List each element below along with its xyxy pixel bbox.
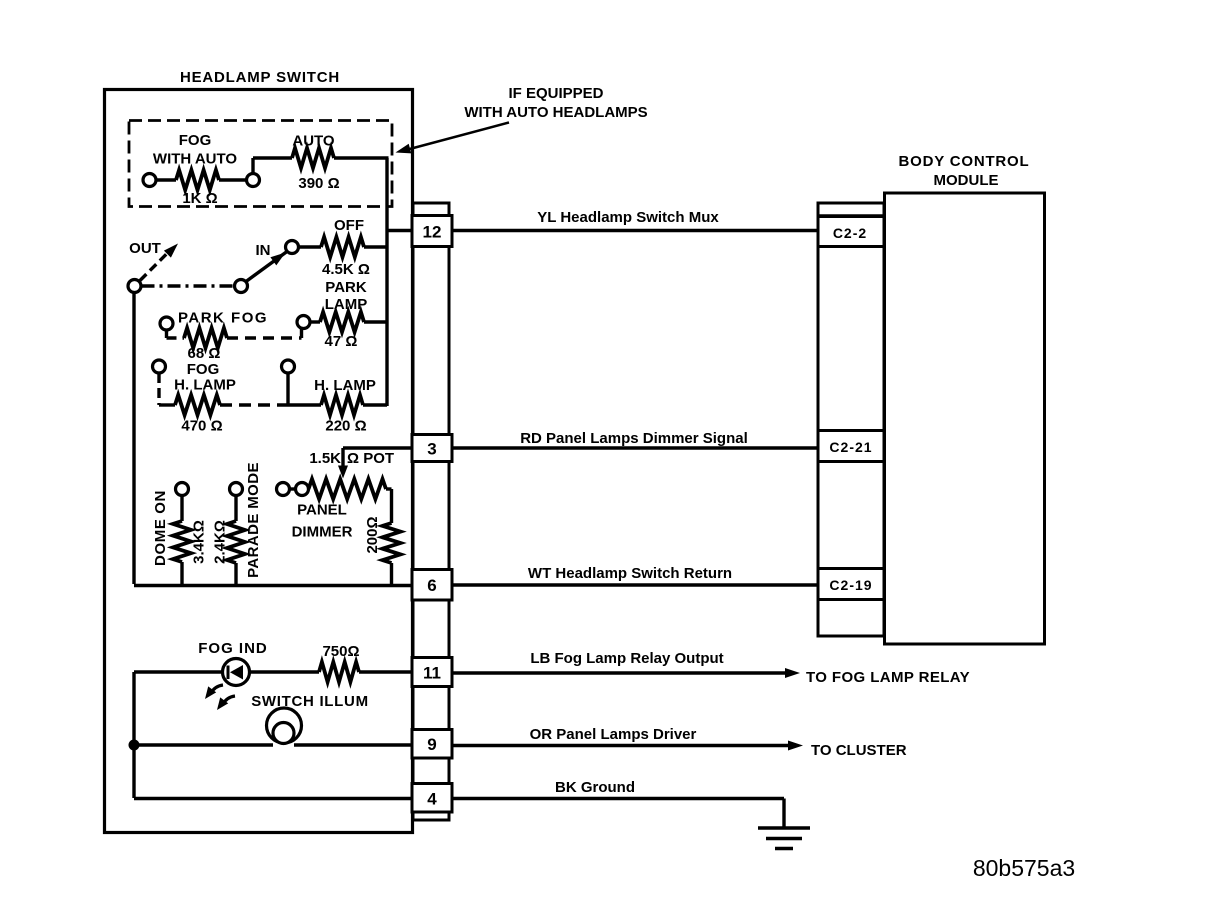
wire OFF resistor left lead (298, 245, 321, 248)
svg-text:DIMMER: DIMMER (292, 524, 353, 541)
wire AUTO to bus (334, 156, 389, 159)
label HEADLAMP SWITCH (180, 69, 340, 86)
figure id 80b575a3 (973, 855, 1075, 881)
lamp SWITCH ILLUM (267, 708, 302, 744)
terminal FOG WITH AUTO right (247, 174, 260, 187)
value 3.4K (191, 520, 208, 564)
label WITH AUTO HEADLAMPS (464, 104, 647, 121)
label RD wire (520, 430, 748, 447)
svg-text:OUT: OUT (129, 240, 161, 257)
label OR wire (530, 726, 697, 743)
wire 1K to terminal (219, 178, 247, 181)
svg-text:RD Panel Lamps Dimmer Signal: RD Panel Lamps Dimmer Signal (520, 430, 748, 447)
pin C2-19 (818, 569, 884, 600)
resistor FOG H LAMP 470 (175, 395, 220, 415)
value 68 (188, 345, 221, 362)
terminal DOME ON (176, 483, 189, 496)
wire park lamp to bus (364, 320, 387, 323)
pin 3 (412, 435, 452, 462)
pin 6 (412, 570, 452, 601)
label PANEL (297, 502, 347, 519)
svg-text:C2-2: C2-2 (833, 225, 867, 241)
svg-text:Ω POT: Ω POT (347, 450, 394, 467)
label WITH AUTO (153, 151, 237, 168)
label WT wire (528, 565, 732, 582)
svg-text:FOG: FOG (187, 361, 220, 378)
terminal FOG WITH AUTO left (143, 174, 156, 187)
value 4.5K (322, 261, 370, 278)
wire left bus (switch common) (132, 290, 135, 584)
wire riser to AUTO resistor (253, 158, 292, 176)
svg-text:H. LAMP: H. LAMP (174, 377, 236, 394)
wire dome on to return (180, 562, 183, 586)
svg-text:2.4KΩ: 2.4KΩ (212, 520, 229, 564)
resistor PANEL DIMMER 1.5K POT (309, 479, 387, 499)
svg-text:HEADLAMP SWITCH: HEADLAMP SWITCH (180, 69, 340, 86)
arrowhead to cluster (788, 741, 803, 751)
connector strip BCM top divider (818, 214, 884, 217)
LED light arrow 1 (205, 685, 223, 699)
label FOG2 (187, 361, 220, 378)
label DIMMER (292, 524, 353, 541)
label FOG IND (198, 640, 268, 657)
wire dome on drop (180, 496, 183, 522)
wire 1K resistor left lead (156, 178, 176, 181)
headlamp switch enclosure (105, 90, 413, 833)
wire WT headlamp switch return right (452, 583, 818, 586)
svg-text:BODY CONTROL: BODY CONTROL (899, 153, 1030, 170)
connector strip headlamp switch (413, 203, 449, 820)
wire LB fog lamp relay output (452, 671, 787, 674)
wire pot terminal link (290, 487, 296, 490)
pin C2-21 (818, 431, 884, 462)
wire OR panel lamps driver (452, 744, 790, 747)
svg-text:1K Ω: 1K Ω (182, 190, 217, 207)
svg-text:9: 9 (427, 735, 436, 754)
resistor PARK FOG 68 (184, 328, 227, 348)
wire switch illum right (294, 743, 413, 746)
arrow if-equipped callout (396, 123, 510, 154)
svg-text:12: 12 (423, 223, 442, 242)
svg-text:220 Ω: 220 Ω (325, 418, 366, 435)
svg-text:FOG: FOG (179, 132, 212, 149)
wire h lamp dashed link (220, 403, 288, 406)
resistor 750 ohm (319, 662, 359, 682)
value 470 (181, 418, 222, 435)
label MODULE (934, 172, 999, 189)
label FOG (179, 132, 212, 149)
svg-text:PARK FOG: PARK FOG (178, 310, 268, 327)
value 220 (325, 418, 366, 435)
svg-text:80b575a3: 80b575a3 (973, 855, 1075, 881)
wire pin 3 to wiper (343, 446, 413, 449)
terminal pot left (296, 483, 309, 496)
svg-text:H. LAMP: H. LAMP (314, 377, 376, 394)
svg-text:PARK: PARK (325, 279, 367, 296)
svg-text:TO FOG LAMP RELAY: TO FOG LAMP RELAY (806, 669, 970, 686)
wire YL headlamp switch mux (452, 229, 818, 232)
svg-text:4.5K Ω: 4.5K Ω (322, 261, 370, 278)
value 200 (364, 516, 381, 553)
terminal PARK FOG (160, 317, 173, 330)
svg-text:750Ω: 750Ω (322, 643, 359, 660)
value 750 (322, 643, 359, 660)
svg-text:6: 6 (427, 576, 436, 595)
body control module box (885, 193, 1045, 644)
label OFF (334, 217, 364, 234)
label LB wire (530, 650, 723, 667)
svg-text:3: 3 (427, 440, 436, 459)
svg-text:FOG IND: FOG IND (198, 640, 268, 657)
svg-text:11: 11 (423, 664, 441, 683)
terminal PARK LAMP (297, 316, 310, 329)
label OUT (129, 240, 161, 257)
label AUTO (292, 133, 335, 150)
wire RD panel lamps dimmer signal (452, 446, 818, 449)
svg-text:68 Ω: 68 Ω (188, 345, 221, 362)
svg-text:SWITCH ILLUM: SWITCH ILLUM (251, 693, 369, 710)
label TO FOG LAMP RELAY (806, 669, 970, 686)
wire pot wiper (341, 448, 344, 467)
svg-text:3.4KΩ: 3.4KΩ (191, 520, 208, 564)
pin 9 (412, 730, 452, 759)
svg-text:TO CLUSTER: TO CLUSTER (811, 742, 907, 759)
svg-text:AUTO: AUTO (292, 133, 335, 150)
pin 4 (412, 784, 452, 813)
wire fog h lamp dashed drop (157, 373, 160, 405)
connector strip top divider (413, 214, 449, 217)
wire h lamp terminal drop (286, 373, 289, 405)
wire OFF to bus (364, 245, 387, 248)
wire BK ground (pin 4 row) (134, 797, 413, 800)
resistor OFF 4.5K (321, 237, 364, 257)
LED indicator FOG IND (223, 659, 250, 686)
resistor PARK LAMP 47 (320, 312, 364, 332)
pin 12 (412, 216, 452, 247)
svg-text:C2-21: C2-21 (829, 439, 872, 455)
label TO CLUSTER (811, 742, 907, 759)
resistor H LAMP 220 (321, 395, 363, 415)
connector strip BCM C2 (818, 203, 884, 636)
resistor DOME ON 3.4K (173, 521, 191, 562)
resistor AUTO 390 (292, 148, 334, 168)
wire parade mode drop (234, 496, 237, 522)
value 390 (298, 175, 339, 192)
wire BK ground right (452, 799, 784, 829)
label DOME ON (152, 490, 169, 566)
label IF EQUIPPED (508, 85, 603, 102)
svg-text:OR Panel Lamps Driver: OR Panel Lamps Driver (530, 726, 697, 743)
wire fog ind left lead (134, 670, 223, 673)
label H LAMP left (174, 377, 236, 394)
label PARADE MODE (245, 462, 262, 578)
value 1.5K POT (309, 450, 394, 467)
wire right bus (mux ladder) (385, 158, 388, 406)
svg-text:OFF: OFF (334, 217, 364, 234)
label SWITCH ILLUM (251, 693, 369, 710)
label LAMP2 (325, 296, 368, 313)
terminal PARADE MODE (230, 483, 243, 496)
svg-text:470 Ω: 470 Ω (181, 418, 222, 435)
svg-text:47 Ω: 47 Ω (325, 333, 358, 350)
svg-text:IN: IN (256, 242, 271, 259)
terminal switch middle (235, 280, 248, 293)
wire fog lamp loop left vertical (132, 672, 135, 798)
svg-text:LB Fog Lamp Relay Output: LB Fog Lamp Relay Output (530, 650, 723, 667)
label IN (256, 242, 271, 259)
resistor 200 ohm (383, 523, 401, 563)
wire park fog dash left (167, 336, 185, 339)
svg-text:WT Headlamp Switch Return: WT Headlamp Switch Return (528, 565, 732, 582)
svg-text:C2-19: C2-19 (829, 577, 872, 593)
label PARK FOG (178, 310, 268, 327)
wire switch blade IN (246, 252, 287, 282)
svg-text:1.5K: 1.5K (309, 450, 341, 467)
wire WT return (pin 6 row) (134, 584, 413, 587)
terminal pot open (277, 483, 290, 496)
wire h lamp left lead (288, 403, 321, 406)
svg-text:PARADE MODE: PARADE MODE (245, 462, 262, 578)
svg-text:390 Ω: 390 Ω (298, 175, 339, 192)
svg-text:IF EQUIPPED: IF EQUIPPED (508, 85, 603, 102)
arrowhead to fog lamp relay (785, 668, 800, 678)
wire 200 ohm to return (390, 563, 393, 586)
svg-text:LAMP: LAMP (325, 296, 368, 313)
wire park lamp left lead (310, 320, 320, 323)
svg-text:BK Ground: BK Ground (555, 779, 635, 796)
label H LAMP right (314, 377, 376, 394)
wire 750 ohm to pin 11 (359, 670, 413, 673)
svg-text:WITH AUTO: WITH AUTO (153, 151, 237, 168)
LED light arrow 2 (217, 696, 235, 710)
label YL wire (537, 209, 719, 226)
wire switch illum left (134, 743, 273, 746)
wire parade mode to return (234, 563, 237, 586)
wire pot right corner (386, 489, 392, 523)
terminal OFF contact (286, 241, 299, 254)
svg-text:MODULE: MODULE (934, 172, 999, 189)
svg-text:DOME ON: DOME ON (152, 490, 169, 566)
wire fog h lamp corner (159, 403, 175, 406)
wire park fog terminal drop (165, 330, 168, 338)
svg-text:200Ω: 200Ω (364, 516, 381, 553)
svg-text:4: 4 (427, 790, 437, 809)
pin 11 (412, 658, 452, 687)
label BODY CONTROL (899, 153, 1030, 170)
wire bus to pin 12 (387, 229, 413, 232)
value 47 (325, 333, 358, 350)
arrowhead pot wiper (338, 466, 348, 479)
resistor FOG WITH AUTO 1K (176, 170, 219, 190)
wire switch dash-dot link (142, 284, 235, 287)
resistor PARADE MODE 2.4K (227, 521, 245, 563)
wire h lamp to bus (363, 403, 387, 406)
wire park fog dashed link (227, 336, 302, 339)
label BK wire (555, 779, 635, 796)
wire fog ind to resistor (249, 670, 319, 673)
svg-text:WITH AUTO HEADLAMPS: WITH AUTO HEADLAMPS (464, 104, 647, 121)
arrowhead IN blade (270, 253, 285, 266)
label PARK (325, 279, 367, 296)
wire park lamp terminal drop (300, 328, 303, 338)
wire OUT blade dashed (140, 252, 169, 281)
ground symbol (758, 828, 810, 849)
pin C2-2 (818, 217, 884, 247)
value 1K (182, 190, 217, 207)
svg-text:PANEL: PANEL (297, 502, 347, 519)
node switch illum / ground junction (129, 740, 140, 751)
terminal FOG H LAMP (153, 360, 166, 373)
value 2.4K (212, 520, 229, 564)
arrowhead OUT blade (164, 244, 178, 258)
dashed option box (auto headlamps) (129, 121, 392, 207)
terminal H LAMP (282, 360, 295, 373)
svg-text:YL Headlamp Switch Mux: YL Headlamp Switch Mux (537, 209, 719, 226)
terminal switch pivot (128, 280, 141, 293)
